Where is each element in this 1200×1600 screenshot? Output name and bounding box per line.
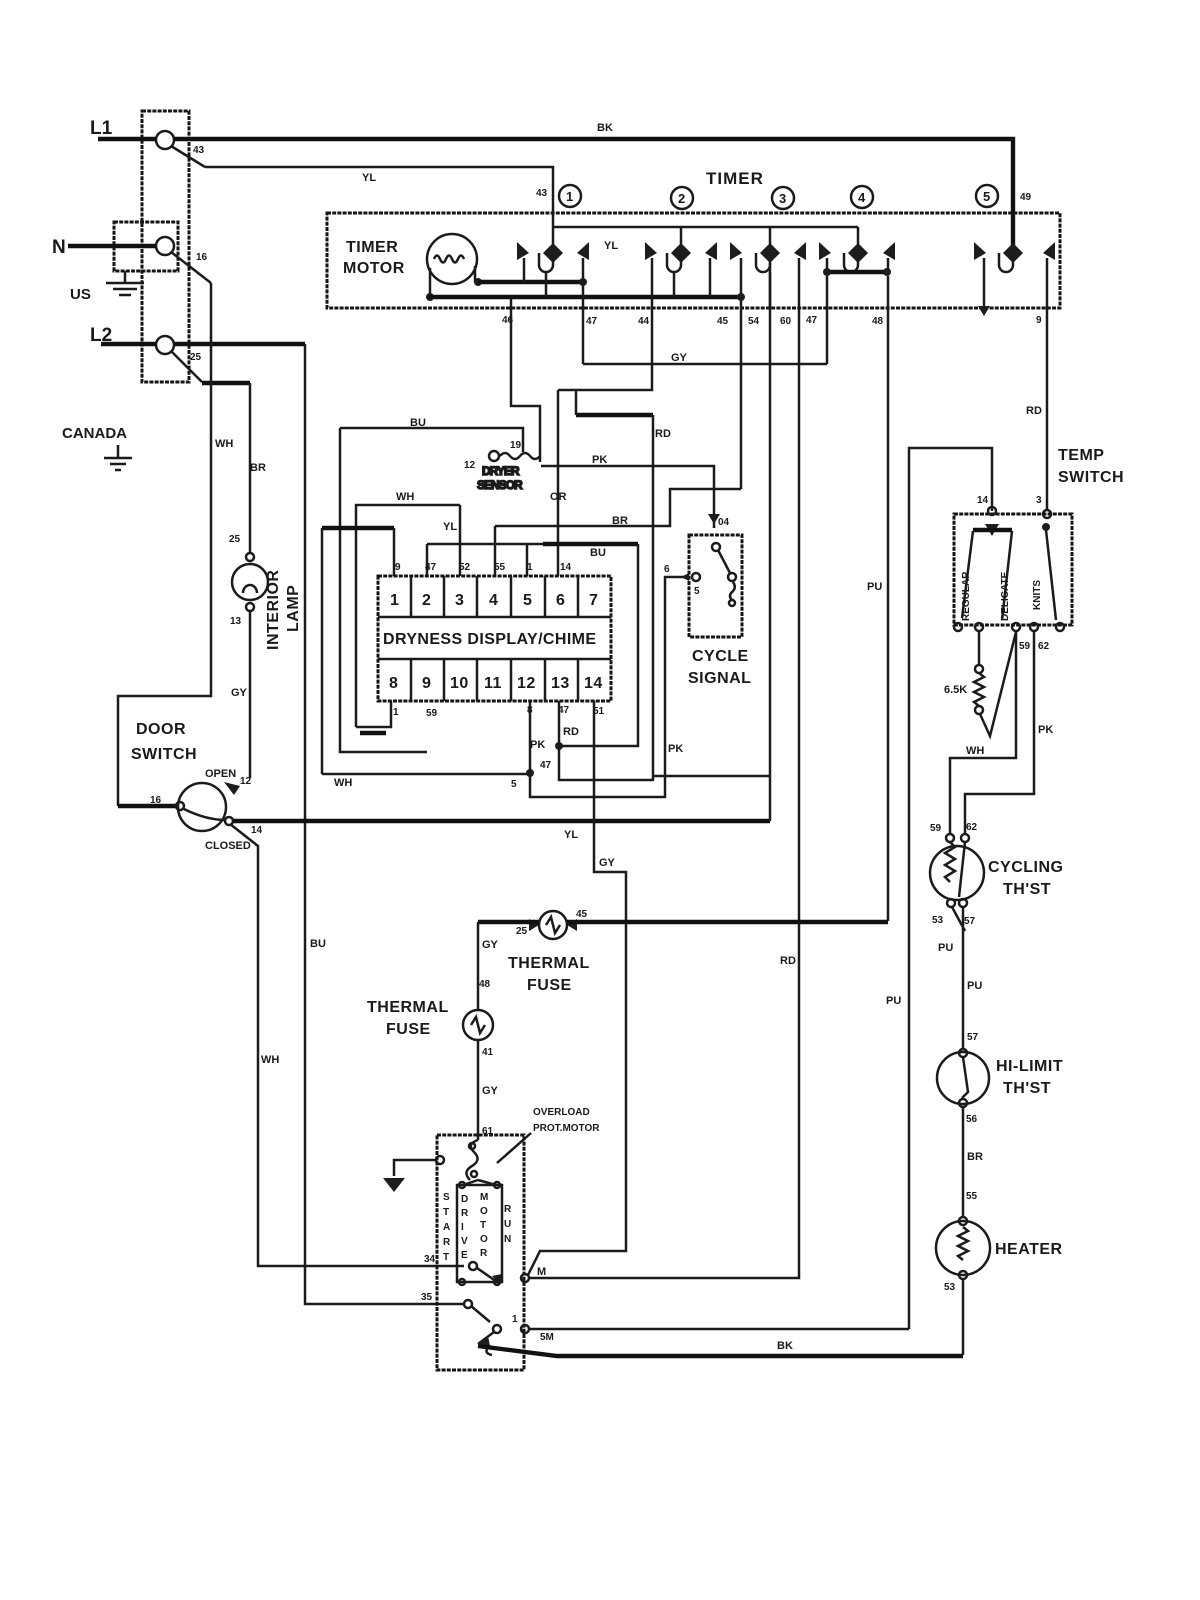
svg-text:DRYNESS DISPLAY/CHIME: DRYNESS DISPLAY/CHIME (383, 631, 596, 648)
wire cell13 stub (530, 701, 653, 780)
motor windings (443, 1180, 512, 1282)
motor switch contact 1 (478, 1314, 554, 1355)
timer terminal 44 (558, 308, 652, 390)
svg-text:35: 35 (421, 1292, 433, 1303)
wire L2 lead (101, 342, 156, 346)
overload protector (466, 1107, 600, 1180)
svg-text:OVERLOAD: OVERLOAD (533, 1107, 590, 1118)
svg-text:57: 57 (964, 916, 976, 927)
wire door switch to timer 54 (233, 821, 770, 841)
svg-text:43: 43 (193, 145, 205, 156)
svg-text:10: 10 (450, 675, 469, 692)
wire WH lower (322, 769, 534, 789)
svg-text:WH: WH (261, 1054, 279, 1066)
timer contact 2 (645, 227, 717, 308)
svg-text:11: 11 (484, 675, 502, 692)
svg-text:BK: BK (777, 1340, 793, 1352)
svg-text:59: 59 (426, 708, 438, 719)
svg-text:INTERIOR: INTERIOR (265, 570, 282, 650)
timer motor (343, 234, 482, 301)
svg-text:PK: PK (668, 743, 683, 755)
svg-text:62: 62 (1038, 641, 1050, 652)
svg-text:25: 25 (229, 534, 241, 545)
svg-text:12: 12 (240, 776, 252, 787)
resistor 6.5K (944, 631, 1016, 736)
wire heater bottom (962, 1279, 965, 1355)
wire cell5 stub (526, 544, 529, 576)
motor start contact (459, 1262, 502, 1285)
timer cam circle 2 (671, 187, 693, 209)
wire N lead (68, 244, 156, 248)
svg-text:53: 53 (944, 1282, 956, 1293)
svg-text:T: T (443, 1252, 449, 1263)
wire motor to temp PU (529, 1328, 909, 1331)
svg-text:O: O (480, 1206, 488, 1217)
cycle signal (664, 535, 751, 687)
svg-text:PK: PK (1038, 724, 1053, 736)
svg-text:6: 6 (664, 564, 670, 575)
switch blade N (171, 252, 211, 283)
wire BU sensor (340, 417, 523, 752)
interior lamp (230, 553, 268, 627)
svg-text:1: 1 (527, 562, 533, 573)
svg-text:PU: PU (938, 942, 953, 954)
svg-text:5M: 5M (540, 1332, 554, 1343)
svg-text:R: R (504, 1204, 512, 1215)
svg-text:PU: PU (867, 581, 882, 593)
svg-text:TIMER: TIMER (346, 239, 398, 256)
svg-text:THERMAL: THERMAL (367, 999, 449, 1016)
svg-text:U: U (504, 1219, 511, 1230)
svg-text:GY: GY (231, 687, 248, 699)
timer cam circle 1 (559, 185, 581, 207)
timer contact 5 (974, 242, 1055, 316)
timer contact 3 (730, 227, 806, 308)
wire cell12 stub (529, 701, 532, 773)
svg-text:LAMP: LAMP (285, 585, 302, 632)
svg-text:7: 7 (589, 592, 598, 609)
node N (52, 237, 174, 258)
timer terminal 60 / wire RD to motor M (529, 258, 799, 1278)
svg-text:WH: WH (396, 491, 414, 503)
svg-text:OPEN: OPEN (205, 768, 236, 780)
svg-text:SWITCH: SWITCH (131, 746, 197, 763)
svg-text:OR: OR (550, 491, 567, 503)
svg-text:1: 1 (512, 1314, 518, 1325)
wire WH neutral (118, 283, 233, 806)
svg-text:60: 60 (780, 316, 792, 327)
wire BK motor to heater (478, 1340, 963, 1356)
svg-text:PU: PU (886, 995, 901, 1007)
svg-text:12: 12 (517, 675, 536, 692)
wire GY cell14 to motor M (528, 701, 626, 1275)
wire GY thermal run (478, 922, 888, 1010)
svg-text:4: 4 (858, 190, 866, 205)
svg-text:1: 1 (390, 592, 399, 609)
timer terminal 45 (717, 297, 741, 489)
svg-text:SWITCH: SWITCH (1058, 469, 1124, 486)
svg-text:R: R (480, 1248, 488, 1259)
timer bus YL top (553, 227, 858, 252)
svg-text:O: O (480, 1234, 488, 1245)
svg-text:DRYER: DRYER (482, 464, 520, 478)
svg-text:6.5K: 6.5K (944, 684, 967, 696)
wire PK temp to cycling (965, 631, 1053, 834)
timer terminal 46 (502, 297, 540, 462)
svg-text:HI-LIMIT: HI-LIMIT (996, 1058, 1063, 1075)
svg-text:46: 46 (502, 315, 514, 326)
svg-text:GY: GY (482, 939, 499, 951)
heater (936, 1217, 1063, 1293)
svg-text:5: 5 (983, 189, 990, 204)
svg-text:47: 47 (586, 316, 598, 327)
display terminal labels bottom (393, 705, 605, 719)
timer cam circle 3 (772, 187, 794, 209)
svg-text:14: 14 (584, 675, 603, 692)
svg-text:3: 3 (779, 191, 786, 206)
svg-text:6: 6 (556, 592, 565, 609)
svg-text:43: 43 (536, 188, 548, 199)
svg-text:25: 25 (190, 352, 202, 363)
wire YL cell1 loop (322, 521, 457, 774)
wire PU motor contact to temp switch (886, 448, 992, 1329)
svg-text:RD: RD (655, 428, 671, 440)
wire WH door to motor 34 (230, 824, 464, 1266)
wire BR display (495, 489, 741, 576)
svg-text:REGULAR: REGULAR (961, 571, 972, 621)
wire WH display loop (356, 491, 460, 733)
hi-limit thermostat (937, 1032, 1063, 1125)
timer cam circle 5 (976, 185, 998, 207)
svg-text:9: 9 (1036, 315, 1042, 326)
wire GY fuse to overload (477, 1040, 480, 1140)
svg-text:57: 57 (967, 1032, 979, 1043)
wire PU cycling to hi-limit (938, 907, 982, 1050)
wire RD to door bus (653, 775, 770, 778)
svg-text:S: S (443, 1192, 450, 1203)
svg-text:RD: RD (780, 955, 796, 967)
svg-text:GY: GY (599, 857, 616, 869)
node L1 (90, 118, 174, 149)
svg-text:04: 04 (718, 517, 730, 528)
svg-text:45: 45 (576, 909, 588, 920)
timer terminal 9 / wire RD to temp switch (1026, 258, 1051, 518)
svg-text:5: 5 (511, 779, 517, 790)
svg-text:R: R (461, 1208, 469, 1219)
svg-text:56: 56 (966, 1114, 978, 1125)
svg-text:THERMAL: THERMAL (508, 955, 590, 972)
svg-text:PK: PK (592, 454, 607, 466)
svg-text:49: 49 (1020, 192, 1032, 203)
terminal block (114, 111, 189, 382)
timer bus lower (427, 295, 741, 299)
svg-text:9: 9 (395, 562, 401, 573)
svg-text:HEATER: HEATER (995, 1241, 1063, 1258)
svg-text:TH'ST: TH'ST (1003, 881, 1051, 898)
wire BK (174, 122, 1032, 246)
timer box (327, 213, 1060, 308)
temp switch (954, 447, 1124, 631)
svg-text:YL: YL (564, 829, 578, 841)
svg-text:N: N (504, 1234, 511, 1245)
svg-text:9: 9 (422, 675, 431, 692)
svg-text:25: 25 (516, 926, 528, 937)
svg-text:55: 55 (966, 1191, 978, 1202)
svg-text:N: N (52, 237, 66, 258)
timer terminal 48 / wire to thermal fuse (867, 276, 888, 921)
svg-text:59: 59 (1019, 641, 1031, 652)
svg-text:L1: L1 (90, 118, 113, 139)
svg-text:PK: PK (530, 739, 545, 751)
ground motor (383, 1156, 444, 1192)
svg-text:V: V (461, 1236, 468, 1247)
svg-text:2: 2 (422, 592, 431, 609)
timer cam circle 4 (851, 186, 873, 208)
svg-text:4: 4 (489, 592, 498, 609)
label INTERIOR LAMP (265, 570, 302, 650)
wire PK sensor to cycle signal (541, 454, 730, 528)
svg-text:3: 3 (1036, 495, 1042, 506)
wire L1 lead (98, 137, 156, 141)
svg-text:47: 47 (425, 562, 437, 573)
svg-text:BR: BR (250, 462, 266, 474)
svg-text:RD: RD (1026, 405, 1042, 417)
svg-text:YL: YL (362, 172, 376, 184)
svg-text:FUSE: FUSE (386, 1021, 431, 1038)
svg-text:3: 3 (455, 592, 464, 609)
svg-text:PROT.MOTOR: PROT.MOTOR (533, 1123, 600, 1134)
motor lower terminal (464, 1300, 490, 1322)
svg-text:41: 41 (482, 1047, 494, 1058)
svg-text:R: R (443, 1237, 451, 1248)
svg-text:TIMER: TIMER (706, 169, 764, 188)
timer contact 1 (517, 242, 589, 297)
svg-text:1: 1 (393, 707, 399, 718)
svg-text:16: 16 (196, 252, 208, 263)
svg-text:PU: PU (967, 980, 982, 992)
thermal fuse 1 (508, 909, 590, 994)
svg-text:CYCLE: CYCLE (692, 648, 749, 665)
svg-text:DOOR: DOOR (136, 721, 186, 738)
wire BU from L2 (174, 344, 465, 1304)
svg-text:KNITS: KNITS (1032, 580, 1043, 610)
svg-text:M: M (537, 1266, 546, 1278)
timer terminal 47a (583, 258, 598, 364)
svg-text:I: I (461, 1222, 464, 1233)
svg-text:53: 53 (932, 915, 944, 926)
wire BR to interior lamp (202, 383, 266, 553)
svg-text:34: 34 (424, 1254, 436, 1265)
svg-text:FUSE: FUSE (527, 977, 572, 994)
cycling thermostat (930, 822, 1064, 931)
svg-text:13: 13 (551, 675, 570, 692)
svg-text:CYCLING: CYCLING (988, 859, 1064, 876)
svg-text:47: 47 (540, 760, 552, 771)
svg-text:SENSOR: SENSOR (477, 478, 523, 492)
svg-text:55: 55 (494, 562, 506, 573)
svg-text:WH: WH (334, 777, 352, 789)
svg-text:TH'ST: TH'ST (1003, 1080, 1051, 1097)
svg-text:SIGNAL: SIGNAL (688, 670, 751, 687)
wire RD display loop (576, 390, 671, 781)
wire WH temp to cycling (950, 631, 1016, 834)
svg-text:YL: YL (604, 240, 618, 252)
svg-text:BU: BU (310, 938, 326, 950)
motor run terminal M (521, 1266, 546, 1282)
wire OR (550, 390, 567, 576)
thermal fuse 2 (367, 999, 499, 1137)
ground CANADA (104, 445, 132, 470)
svg-text:2: 2 (678, 191, 685, 206)
timer bus upper (478, 278, 587, 286)
ground US (70, 271, 144, 303)
timer terminal 54 (748, 272, 770, 821)
svg-text:14: 14 (251, 825, 263, 836)
svg-text:T: T (480, 1220, 486, 1231)
door switch (131, 721, 263, 852)
svg-text:A: A (443, 1222, 450, 1233)
svg-text:62: 62 (966, 822, 978, 833)
svg-text:52: 52 (459, 562, 471, 573)
svg-text:GY: GY (482, 1085, 499, 1097)
svg-text:M: M (480, 1192, 488, 1203)
svg-text:54: 54 (748, 316, 760, 327)
svg-text:5: 5 (523, 592, 532, 609)
svg-text:47: 47 (806, 315, 818, 326)
wire GY timer loop (583, 352, 827, 364)
svg-text:BU: BU (590, 547, 606, 559)
svg-text:DELICATE: DELICATE (1000, 571, 1011, 621)
svg-text:14: 14 (977, 495, 989, 506)
svg-text:YL: YL (443, 521, 457, 533)
wire cell12 to cycle signal (511, 577, 689, 797)
svg-text:16: 16 (150, 795, 162, 806)
switch blade L2 (171, 351, 202, 382)
wire GY lamp to door switch (231, 611, 250, 778)
display terminal labels top (395, 562, 572, 573)
svg-text:T: T (443, 1207, 449, 1218)
svg-text:D: D (461, 1194, 468, 1205)
svg-text:WH: WH (966, 745, 984, 757)
svg-text:MOTOR: MOTOR (343, 260, 405, 277)
svg-text:14: 14 (560, 562, 572, 573)
svg-text:RD: RD (563, 726, 579, 738)
svg-text:48: 48 (872, 316, 884, 327)
svg-text:E: E (461, 1250, 468, 1261)
svg-text:12: 12 (464, 460, 476, 471)
svg-text:BR: BR (967, 1151, 983, 1163)
motor box (437, 1135, 524, 1370)
svg-text:13: 13 (230, 616, 242, 627)
wire BU display (427, 544, 638, 750)
svg-text:19: 19 (510, 440, 522, 451)
svg-text:1: 1 (566, 189, 573, 204)
svg-text:WH: WH (215, 438, 233, 450)
svg-text:5: 5 (694, 586, 700, 597)
timer terminal 47b (806, 276, 827, 364)
svg-text:59: 59 (930, 823, 942, 834)
wire YL (205, 167, 553, 246)
node L2 (90, 325, 174, 354)
svg-text:CANADA: CANADA (62, 425, 127, 442)
svg-text:CLOSED: CLOSED (205, 840, 251, 852)
svg-text:BU: BU (410, 417, 426, 429)
timer contact 4 (819, 227, 895, 276)
svg-text:44: 44 (638, 316, 650, 327)
svg-text:48: 48 (479, 979, 491, 990)
dryness display box (378, 576, 611, 701)
dryer sensor (464, 440, 540, 492)
svg-text:45: 45 (717, 316, 729, 327)
svg-text:GY: GY (671, 352, 688, 364)
svg-text:US: US (70, 286, 91, 303)
switch blade L1 (171, 145, 205, 167)
svg-text:BR: BR (612, 515, 628, 527)
svg-text:BK: BK (597, 122, 613, 134)
wire BR hi-limit to heater (963, 1107, 983, 1218)
svg-text:TEMP: TEMP (1058, 447, 1104, 464)
svg-text:8: 8 (389, 675, 398, 692)
wire cell3 stub (459, 505, 462, 576)
